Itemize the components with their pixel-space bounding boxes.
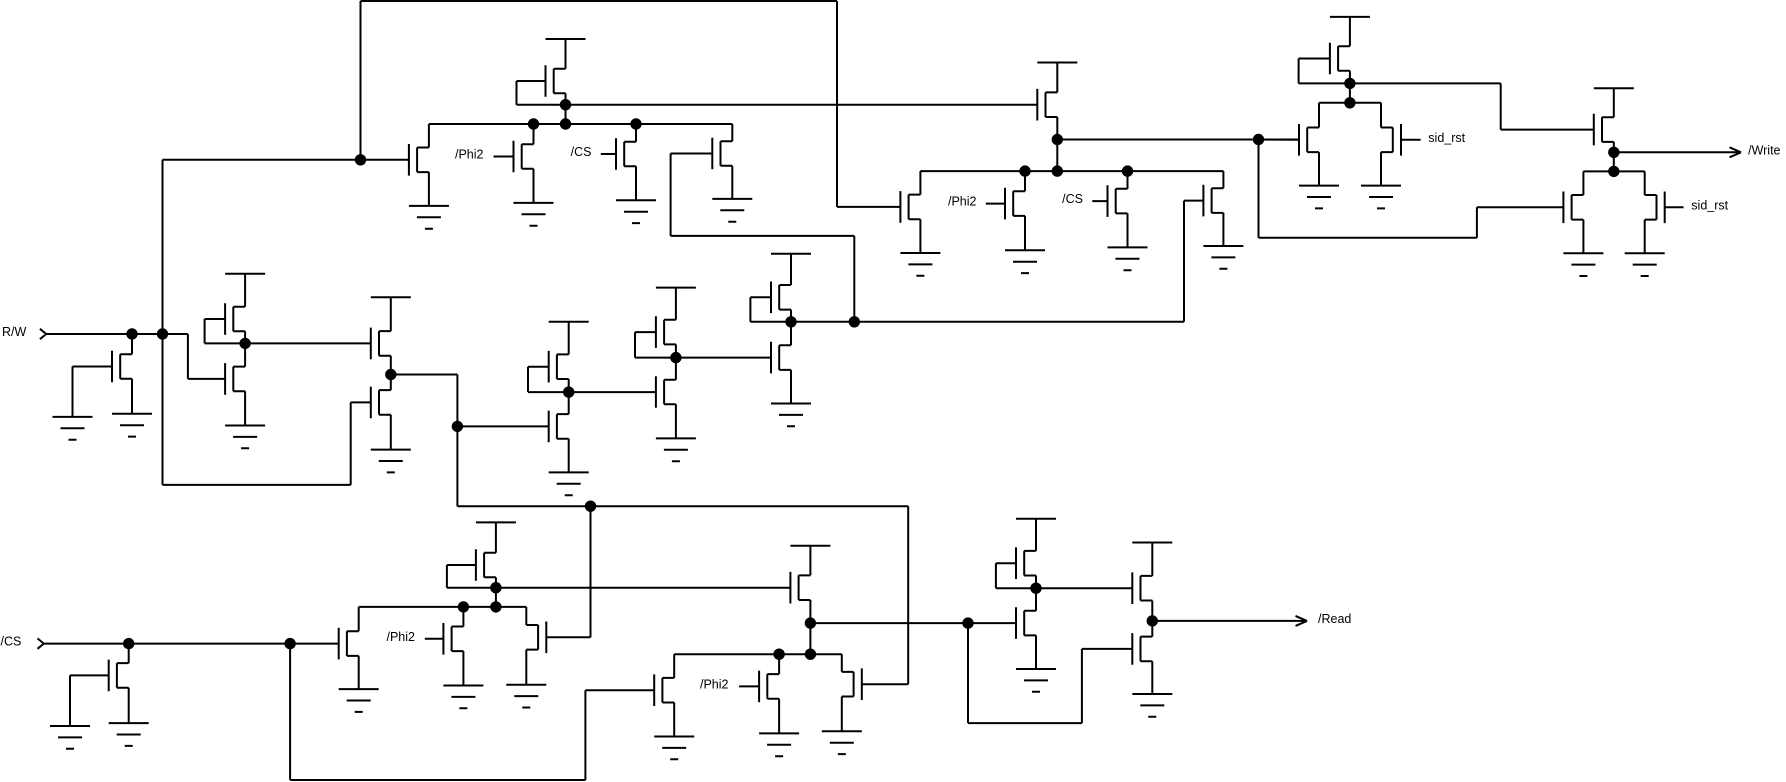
svg-text:/Phi2: /Phi2	[387, 630, 416, 644]
svg-text:/Write: /Write	[1748, 144, 1780, 158]
svg-text:/Read: /Read	[1318, 612, 1351, 626]
svg-text:R/W: R/W	[2, 325, 27, 339]
svg-text:/Phi2: /Phi2	[948, 195, 977, 209]
svg-text:/Phi2: /Phi2	[455, 148, 484, 162]
svg-text:/CS: /CS	[571, 145, 592, 159]
svg-text:sid_rst: sid_rst	[1428, 131, 1465, 145]
svg-text:sid_rst: sid_rst	[1691, 199, 1728, 213]
svg-text:/Phi2: /Phi2	[700, 678, 729, 692]
svg-text:/CS: /CS	[1, 634, 22, 648]
svg-text:/CS: /CS	[1062, 192, 1083, 206]
